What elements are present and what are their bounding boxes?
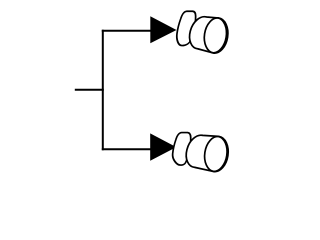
- loudspeaker LS2: front end-cap ellipse: [202, 135, 230, 174]
- wire: bottom branch to lower amplifier: [102, 148, 151, 150]
- wire: vertical bus: [102, 30, 104, 151]
- loudspeaker LS2: diaphragm disc: [171, 133, 193, 166]
- amplifier A2 (lower, filled triangle): [150, 133, 176, 160]
- amplifier A1 (upper, filled triangle): [150, 16, 176, 43]
- wire: input stub from source: [75, 89, 104, 91]
- loudspeaker LS1: diaphragm disc: [174, 11, 197, 45]
- wire: top branch to upper amplifier: [102, 30, 151, 32]
- loudspeaker LS2: magnet/body silhouette: [186, 135, 227, 171]
- loudspeaker LS1: magnet/body silhouette: [190, 17, 227, 53]
- loudspeaker LS1: front end-cap ellipse: [202, 16, 230, 55]
